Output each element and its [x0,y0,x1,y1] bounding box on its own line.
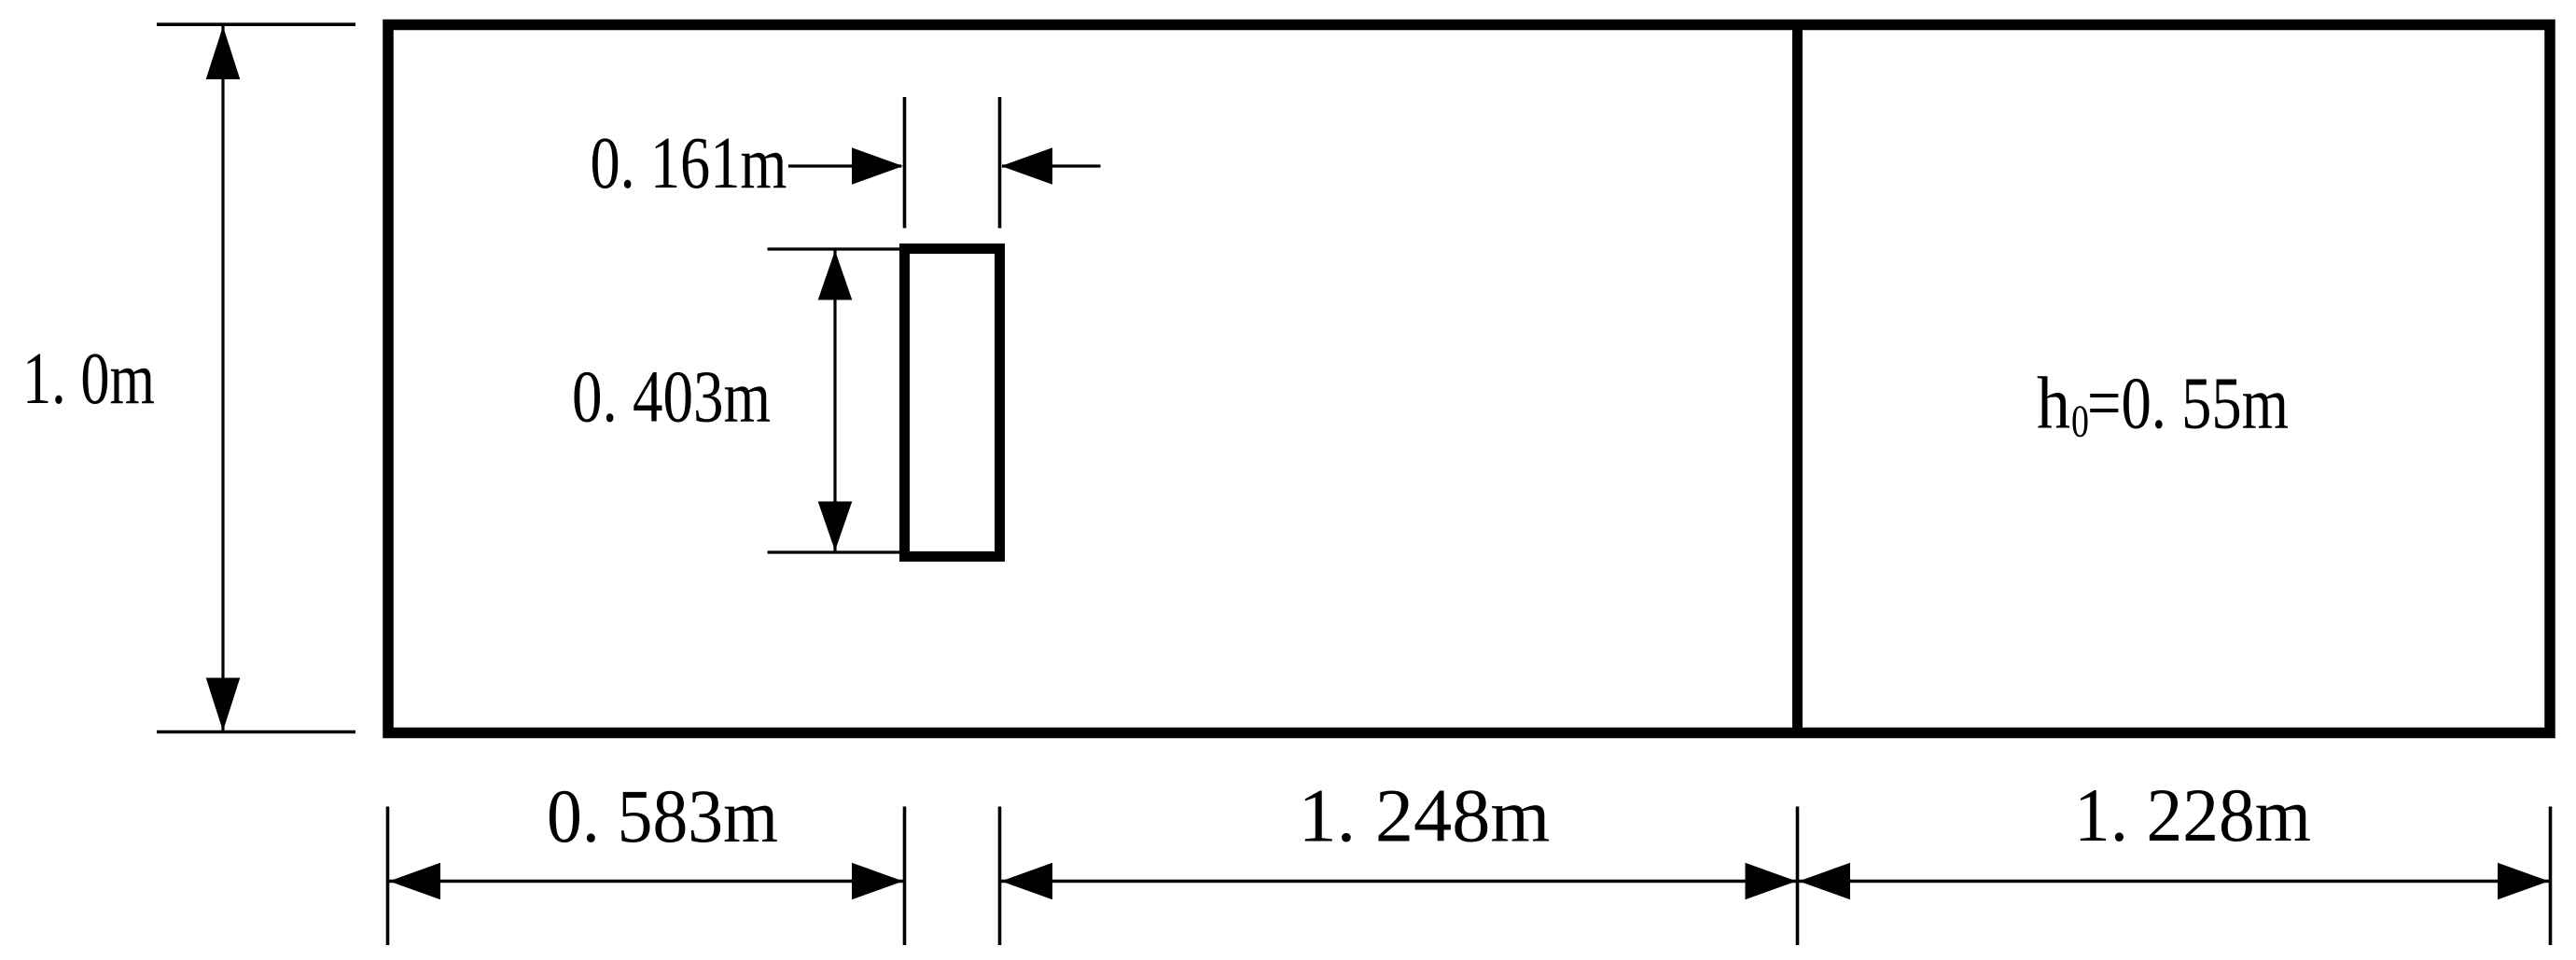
dim 0.161m left arrowhead [852,147,903,185]
svg-text:1. 0m: 1. 0m [22,339,155,420]
bottom extension line under baffle right edge [998,807,1002,946]
svg-text:1. 248m: 1. 248m [1299,773,1551,858]
svg-text:0. 403m: 0. 403m [572,357,771,438]
dim 0.403m extension line top [768,247,902,250]
bottom extension line under right wall [2549,807,2553,946]
dim 0.583m right arrowhead [852,863,903,900]
bottom extension line under divider [1796,807,1800,946]
bottom extension line under baffle left edge [903,807,907,946]
dim 1.248m dimension line [1001,880,1797,883]
baffle plate small rectangle [905,249,1000,557]
svg-text:h: h [2037,363,2070,444]
dim 1.0m dimension line [221,26,224,730]
dim 1.0m extension line bottom [157,730,355,734]
dim 1.0m arrowhead up [206,26,241,79]
dim 0.583m left arrowhead [389,863,440,900]
dim 1.0m extension line top [157,22,355,26]
svg-text:1. 228m: 1. 228m [2074,772,2311,857]
svg-text:0. 161m: 0. 161m [591,123,787,204]
dim 0.403m arrowhead up [818,251,853,300]
divider wall line [1792,20,1803,738]
dim 0.161m right arrowhead [1001,147,1052,185]
dim 1.0m arrowhead down [206,678,241,731]
dim 1.248m left arrowhead [1001,863,1052,900]
bottom extension line under left wall [386,807,390,946]
dim 0.161m right leader line [1002,164,1101,167]
tank outer rectangle [388,25,2550,733]
dim 0.161m extension line right [998,97,1002,229]
dim 1.228m dimension line [1799,880,2549,883]
dim 0.161m extension line left [903,97,907,229]
svg-text:0. 583m: 0. 583m [547,773,778,858]
dim 0.403m dimension line [833,250,836,551]
dim 0.583m dimension line [389,880,903,883]
dim 1.228m left arrowhead [1799,863,1850,900]
dim 0.403m extension line bottom [768,550,902,553]
dim 1.228m right arrowhead [2498,863,2549,900]
dim 0.161m left leader line [788,164,901,167]
svg-text:=0. 55m: =0. 55m [2087,363,2289,444]
dim 1.248m right arrowhead [1746,863,1797,900]
dim 0.403m arrowhead down [818,502,853,551]
